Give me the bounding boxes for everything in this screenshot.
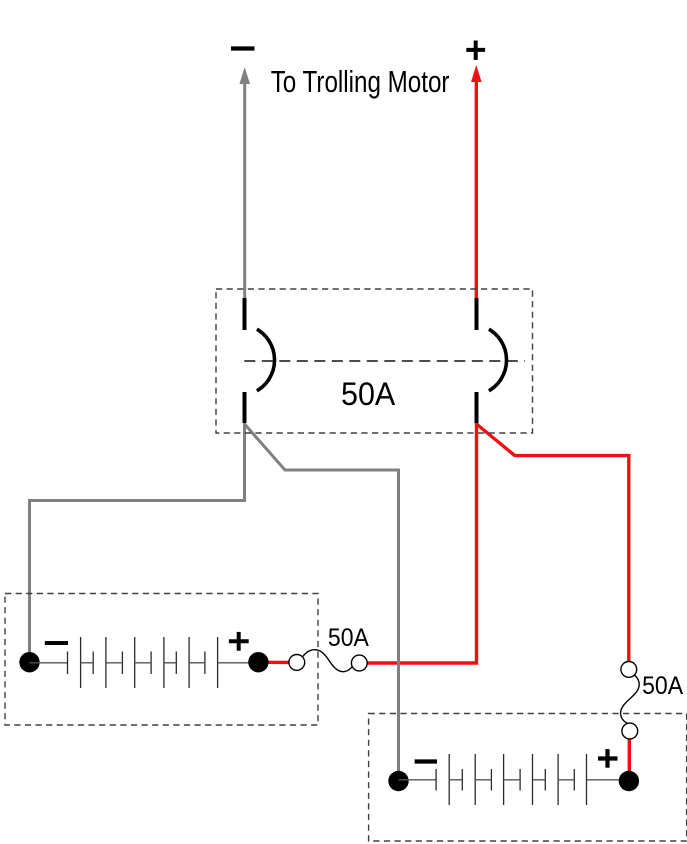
wire gray negative to motor with arrowhead — [239, 67, 250, 299]
battery1 minus terminal dot — [19, 652, 39, 672]
battery1 plus terminal dot — [248, 652, 268, 672]
breaker CB2 right: top stub — [475, 298, 479, 330]
battery2 minus sign — [415, 759, 437, 763]
battery1 lead minus side — [30, 662, 68, 664]
breaker CB2 right: bottom stub — [475, 392, 479, 423]
breaker CB2 right: arc — [489, 329, 507, 391]
fuse F1 left circle — [289, 655, 305, 671]
battery1 enclosure dashed box — [5, 594, 318, 726]
label minus (motor negative) — [231, 46, 255, 50]
fuse F1 right circle — [351, 655, 367, 671]
battery1 plus sign — [229, 632, 249, 651]
gray wire: breaker left bottom diagonal, right, down to battery2 minus — [245, 424, 399, 775]
svg-text:To Trolling Motor: To Trolling Motor — [271, 65, 450, 99]
battery2 plus sign — [598, 749, 618, 768]
red wire: breaker right bottom diagonal, right, down to fuse F2 — [477, 424, 629, 662]
battery2 lead plus side — [587, 779, 623, 781]
fuse F2 top circle — [621, 662, 637, 678]
battery2 lead minus side — [399, 779, 437, 781]
battery2 cell connectors — [449, 779, 574, 781]
breaker CB1 left: top stub — [243, 298, 247, 330]
wire red positive to motor with arrowhead — [471, 65, 482, 299]
battery2 enclosure dashed box — [369, 714, 687, 842]
breaker CB1 left: bottom stub — [243, 392, 247, 423]
svg-text:50A: 50A — [642, 673, 683, 700]
red wire: fuse F2 bottom circle to battery2 plus dot — [628, 725, 631, 781]
breaker CB1 left: arc — [257, 329, 275, 391]
gray wire: breaker left bottom, down, left, down to battery1 minus — [30, 422, 245, 654]
fuse F2 squiggle — [621, 675, 640, 724]
breaker enclosure dashed box — [216, 289, 533, 433]
label plus (motor positive) — [466, 41, 485, 60]
battery1 plates — [68, 637, 218, 688]
red wire: breaker right bottom, down to y660, left to fuse F1 — [367, 422, 477, 663]
svg-text:50A: 50A — [328, 625, 369, 652]
battery2 minus terminal dot — [388, 771, 408, 791]
fuse F1 squiggle — [303, 650, 353, 672]
svg-text:50A: 50A — [341, 376, 396, 412]
battery2 plus terminal dot — [619, 771, 639, 791]
battery2 plates — [436, 754, 586, 805]
red wire: battery1 plus dot to fuse F1 left circle — [258, 661, 292, 665]
battery1 cell connectors — [81, 662, 205, 664]
fuse F2 bottom circle — [622, 723, 638, 739]
battery1 lead plus side — [218, 662, 252, 664]
battery1 minus sign — [45, 641, 68, 645]
breaker mechanical link dashed centerline — [244, 360, 525, 362]
